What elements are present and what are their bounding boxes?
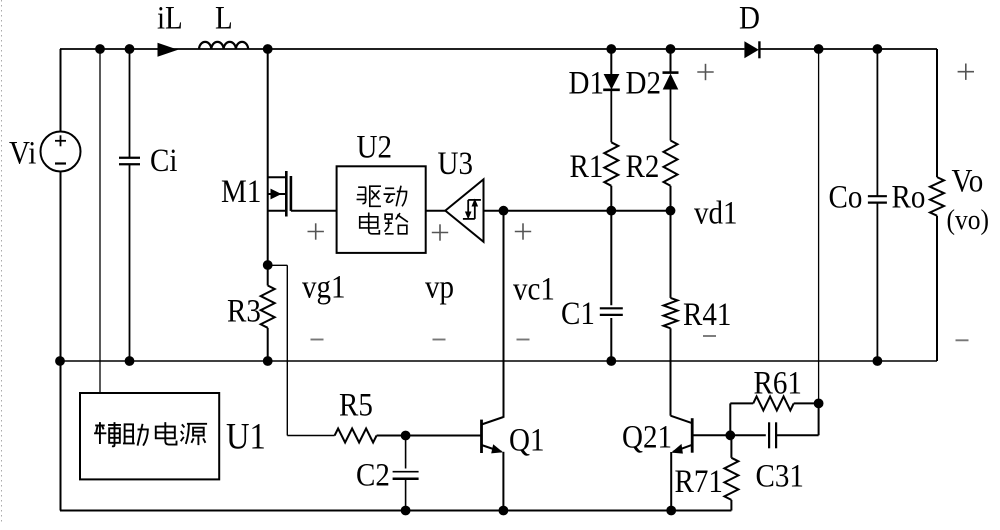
svg-text:Ro: Ro bbox=[892, 178, 926, 215]
svg-text:R71: R71 bbox=[675, 462, 723, 499]
svg-text:C2: C2 bbox=[356, 456, 390, 493]
svg-text:R1: R1 bbox=[570, 147, 604, 184]
svg-text:U1: U1 bbox=[226, 416, 266, 457]
svg-text:vd1: vd1 bbox=[694, 194, 738, 231]
svg-text:Vi: Vi bbox=[9, 134, 37, 171]
svg-text:vg1: vg1 bbox=[302, 268, 346, 305]
svg-text:Q21: Q21 bbox=[622, 418, 672, 455]
svg-text:R3: R3 bbox=[227, 292, 261, 329]
svg-text:L: L bbox=[215, 0, 233, 36]
svg-text:U3: U3 bbox=[438, 144, 473, 181]
svg-text:C1: C1 bbox=[561, 294, 595, 331]
svg-text:vc1: vc1 bbox=[513, 270, 555, 307]
svg-text:D: D bbox=[739, 0, 760, 36]
svg-text:D2: D2 bbox=[626, 64, 661, 101]
svg-text:M1: M1 bbox=[221, 172, 261, 209]
svg-text:D1: D1 bbox=[568, 64, 603, 101]
svg-text:R41: R41 bbox=[683, 295, 731, 332]
svg-text:U2: U2 bbox=[356, 128, 391, 165]
svg-text:Ci: Ci bbox=[150, 141, 178, 178]
svg-text:C31: C31 bbox=[755, 457, 803, 494]
svg-text:R2: R2 bbox=[626, 147, 660, 184]
svg-text:R61: R61 bbox=[754, 364, 802, 401]
svg-text:vp: vp bbox=[425, 268, 454, 305]
svg-text:(vo): (vo) bbox=[947, 204, 989, 236]
svg-text:Vo: Vo bbox=[952, 162, 984, 199]
svg-text:Q1: Q1 bbox=[509, 421, 544, 458]
svg-text:iL: iL bbox=[157, 0, 183, 36]
svg-text:Co: Co bbox=[829, 178, 863, 215]
svg-text:R5: R5 bbox=[339, 386, 373, 423]
